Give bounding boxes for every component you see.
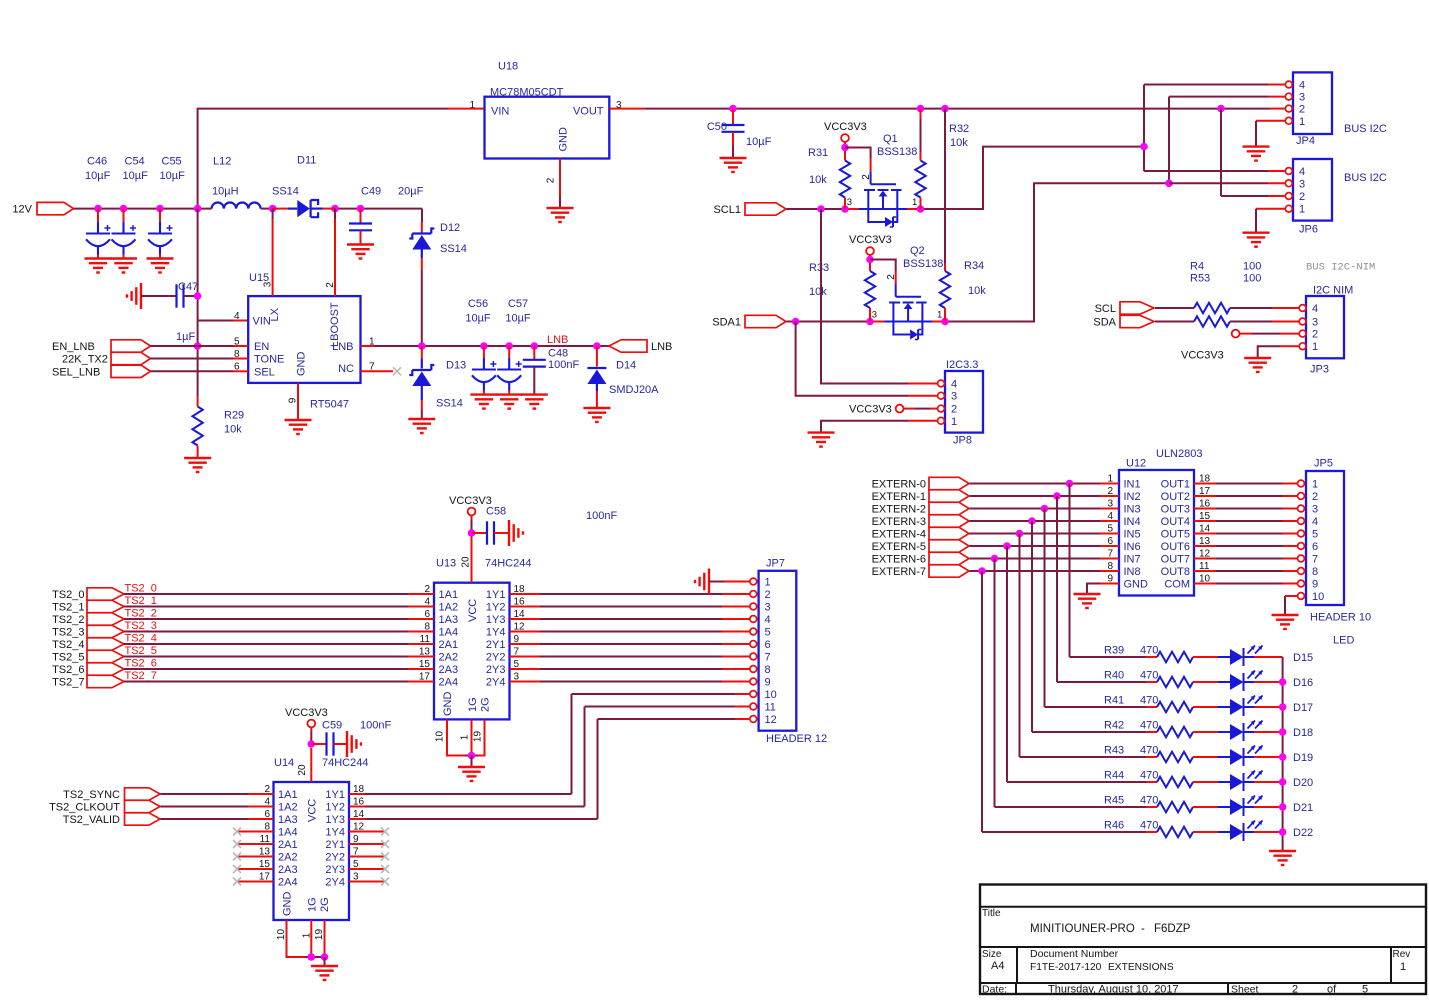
svg-text:7: 7 [353,847,359,858]
svg-text:2: 2 [1107,486,1113,497]
svg-text:12: 12 [514,622,526,633]
wire SDA1 drain stub [930,321,945,323]
wire R32 top dark [920,119,922,152]
resistor R39 470 [1157,652,1193,662]
port EN_LNB [111,340,151,352]
port LNB [609,340,647,352]
svg-text:4: 4 [1299,166,1305,178]
wire D18 cathode lead [1244,731,1255,733]
wire C47 left [141,295,177,297]
svg-text:EXTERN-0: EXTERN-0 [872,479,926,491]
wire OUT6 stub [1194,545,1216,547]
svg-text:12V: 12V [12,204,32,216]
wire VCC3V3 to JP8.2 dark [915,408,930,410]
connector JP4 box [1293,72,1332,134]
wire JP5 pin1 stub [1283,483,1297,485]
wire D16 anode lead [1218,681,1230,683]
svg-text:R41: R41 [1104,695,1124,707]
wire D11 cathode stub [323,208,335,210]
svg-text:2: 2 [1312,329,1318,341]
wire OUT3 run [1216,508,1283,510]
port TS2_VALID [125,813,161,825]
svg-text:20µF: 20µF [398,186,424,198]
svg-text:1: 1 [912,197,917,208]
svg-text:VCC3V3: VCC3V3 [849,234,892,246]
wire R34 top dark [944,109,946,263]
no-connect X U14 2Y4 [381,878,389,886]
wire 2Y2 out stub [510,656,541,658]
wire U14 1Y2 run [365,806,585,808]
svg-text:9: 9 [288,397,299,403]
diode D14 SMDJ20A [587,368,606,384]
svg-text:TS2_2: TS2_2 [52,614,84,626]
power VCC3V3 at Q2 gate [866,247,874,255]
pins JP3 [1299,305,1306,350]
wire JP6 pin4 stub [1268,170,1285,172]
svg-text:IN7: IN7 [1124,554,1141,566]
wire JP5 pin8 stub [1283,570,1297,572]
wire Q2 gate red [895,271,897,284]
svg-text:Size: Size [982,949,1002,960]
wire JP3.1 down [1258,346,1280,358]
junction SCL5V at JP4 vertical [1140,143,1148,151]
wire VCC3V3 to JP3.2 dark [1252,333,1280,335]
svg-text:14: 14 [514,609,526,620]
svg-text:BUS I2C: BUS I2C [1344,123,1387,135]
wire JP7 pin1 to ground [724,581,750,583]
driver U12 ULN2803 box [1119,470,1194,596]
wire R4 to JP3.4 [1230,307,1272,309]
svg-text:2: 2 [264,784,270,795]
svg-text:9: 9 [353,834,359,845]
svg-text:1G: 1G [467,697,479,712]
svg-text:6: 6 [1312,541,1318,553]
svg-text:D18: D18 [1293,727,1313,739]
connector JP8 box [945,371,983,433]
svg-text:R34: R34 [964,260,984,272]
wire 1Y1 out stub [510,593,541,595]
wire OUT4 stub [1194,520,1216,522]
wire D15 anode lead [1218,656,1230,658]
wire R46 to LED [1193,831,1218,833]
wire JP6 pin2 run [1221,195,1268,197]
wire 2Y1 out stub [510,643,541,645]
wire JP8.3 stub [908,395,937,397]
wire VIN pin4 stub [233,320,248,322]
svg-text:470.: 470. [1140,745,1161,757]
wire VCC3V3 to JP3.2 red [1240,333,1252,335]
svg-text:HEADER 10: HEADER 10 [1310,612,1371,624]
svg-text:3: 3 [514,672,520,683]
svg-text:U12: U12 [1126,458,1146,470]
svg-text:1Y3: 1Y3 [486,614,506,626]
wire SCL to R4 [1155,307,1194,309]
wire R46 left stub [1146,831,1157,833]
wire D13 lead [421,359,423,369]
wire D14 top stub [596,346,598,367]
wire R33 top stub [869,264,871,272]
svg-text:1: 1 [765,577,771,589]
wire D15 cathode lead [1244,656,1255,658]
svg-text:10k: 10k [950,137,968,149]
svg-text:14: 14 [353,809,365,820]
svg-text:EXTERN-6: EXTERN-6 [872,554,926,566]
ground at JP7 pin1 [695,569,709,595]
wire R45 to LED [1193,806,1218,808]
wire SEL stub [233,370,248,372]
svg-text:1: 1 [1107,474,1113,485]
wire R41 to LED [1193,706,1218,708]
wire U14 2Y3 nc stub [349,868,384,870]
wire EXTERN-3 stub [1100,520,1119,522]
svg-text:10k: 10k [809,174,827,186]
svg-text:SDA1: SDA1 [712,317,741,329]
svg-text:7: 7 [514,647,520,658]
svg-text:9: 9 [1312,579,1318,591]
wire TONE stub [233,358,248,360]
wire 12V bus riser to U18 VIN [198,109,448,209]
wire U14 1Y3 stub [349,818,365,820]
svg-text:17: 17 [259,872,271,883]
svg-text:20: 20 [297,764,308,776]
svg-text:SS14: SS14 [436,398,463,410]
wire 12V bus right of D11 [335,208,422,210]
svg-text:GND: GND [296,352,308,377]
svg-text:BSS138: BSS138 [877,146,917,158]
svg-text:2A3: 2A3 [439,664,459,676]
svg-text:C50: C50 [707,121,727,133]
port SDA (NIM) [1120,315,1154,327]
svg-text:EXTERN-1: EXTERN-1 [872,491,926,503]
svg-text:TS2_3: TS2_3 [125,620,157,632]
capacitor C46 [86,222,111,255]
wire SCL1 to JP8.4 [821,209,908,384]
svg-text:IN6: IN6 [1124,541,1141,553]
svg-text:10µF: 10µF [746,136,772,148]
svg-text:17: 17 [1199,486,1211,497]
buffer U13 74HC244 box [434,583,510,720]
wire JP5 pin3 stub [1283,508,1297,510]
wire D22 cathode lead [1244,831,1255,833]
svg-text:8: 8 [1312,566,1318,578]
wire OUT7 stub [1194,558,1216,560]
wire OUT1 stub [1194,483,1216,485]
wire EXTERN-4 stub [1100,533,1119,535]
wire OUT2 run [1216,495,1283,497]
wire JP5 pin7 stub [1283,558,1297,560]
wire C49 stub top [360,209,362,224]
no-connect X U14 2A4 [233,878,241,886]
wire R31 top stub [844,152,846,161]
port TS2_3 [87,625,124,637]
svg-text:470.: 470. [1140,770,1161,782]
capacitor C54 [112,222,137,255]
wire R33 bottom stub [869,308,871,322]
wire U14 2A1 nc stub [238,843,274,845]
resistor R44 470 [1157,777,1193,787]
svg-text:1: 1 [937,310,942,321]
wire EXTERN-4 run [970,533,1101,535]
wire C48 top stub [533,346,535,360]
port 22K_TX2 [111,352,151,364]
wire JP5 pin2 stub [1283,495,1297,497]
wire JP7 pin5 stub [722,631,750,633]
wire VCC3V3 to R31 [844,142,846,151]
port EXTERN-3 [929,515,969,527]
wire C55 top stub [159,209,161,222]
wire LNB bus [374,345,609,347]
wire JP5 pin10 down [1284,596,1286,615]
svg-text:IN5: IN5 [1124,529,1141,541]
svg-text:VOUT: VOUT [573,106,604,118]
svg-text:GND: GND [1124,579,1149,591]
wire OUT2 stub [1194,495,1216,497]
svg-text:C57: C57 [508,298,528,310]
wire R53 stub [1272,321,1299,323]
wire R42 left stub [1146,731,1157,733]
wire U14 VCC red [310,748,312,782]
wire TS2_SYNC stub [248,793,274,795]
wire R42 to LED [1193,731,1218,733]
wire JP8.4 stub [908,383,937,385]
wire EXTERN-7 stub [1100,570,1119,572]
svg-text:of: of [1327,984,1337,996]
svg-text:10µF: 10µF [85,170,111,182]
connector JP5 box [1306,471,1344,605]
junction SDA1 row [792,318,874,326]
wire R53 to JP3.3 [1230,321,1272,323]
svg-text:U13: U13 [436,558,456,570]
svg-text:1A3: 1A3 [278,814,298,826]
svg-text:Date:: Date: [982,984,1007,996]
port TS2_1 [87,600,124,612]
wire LBOOST riser [334,219,336,296]
wire D13 bottom lead [421,386,423,400]
svg-text:A4: A4 [991,960,1004,972]
junction 5V bus [729,105,1225,113]
svg-text:9: 9 [765,677,771,689]
op-amp U15 RT5047 box [248,296,360,383]
ground under C57 [496,395,523,409]
wire JP7 pin7 stub [722,656,750,658]
svg-text:1A4: 1A4 [278,827,298,839]
svg-text:Sheet: Sheet [1231,984,1259,996]
wire SCL 5V side [921,147,1145,209]
svg-text:IN8: IN8 [1124,566,1141,578]
svg-text:2A3: 2A3 [278,864,298,876]
svg-text:4: 4 [765,614,771,626]
svg-text:LED: LED [1333,635,1354,647]
wire JP6 pin1 down [1255,209,1257,233]
wire D19 cathode lead [1244,756,1255,758]
wire R39 left stub [1146,656,1157,658]
ground under U13 [458,767,485,781]
wire OUT5 stub [1194,533,1216,535]
svg-text:4: 4 [951,379,957,391]
svg-text:3: 3 [1312,504,1318,516]
svg-text:2: 2 [765,589,771,601]
ground under JP6 pin1 [1243,233,1270,247]
svg-text:VIN: VIN [491,106,509,118]
wire U13 gnd link [465,755,478,757]
regulator U18 MC78M05CDT box [485,97,610,159]
wire C57 bottom stub [508,391,510,395]
svg-text:100: 100 [1243,273,1261,285]
svg-text:5: 5 [514,659,520,670]
svg-text:EXTENSIONS: EXTENSIONS [1108,962,1174,973]
wire OUT8 stub [1194,570,1216,572]
wire 1Y2 to JP7 [540,606,722,608]
wire D21 to common [1254,806,1283,808]
svg-text:2: 2 [424,584,430,595]
svg-text:TS2_VALID: TS2_VALID [63,814,120,826]
wire D21 anode lead [1218,806,1230,808]
svg-text:TS2_7: TS2_7 [52,677,84,689]
svg-text:1G: 1G [307,897,319,912]
port EXTERN-1 [929,490,969,502]
wire 22K_TX2 to TONE [151,358,234,360]
wire 1Y2 out stub [510,606,541,608]
svg-text:3: 3 [847,197,852,208]
svg-text:R53: R53 [1190,273,1210,285]
wire D17 cathode lead [1244,706,1255,708]
svg-text:1A2: 1A2 [439,602,459,614]
ground under JP3 pin1 [1244,358,1271,372]
wire D19 anode lead [1218,756,1230,758]
wire VCC3V3 circle red stub (U14) [310,727,312,731]
svg-text:VCC: VCC [307,799,319,822]
svg-text:13: 13 [419,647,431,658]
resistor R40 470 [1157,677,1193,687]
wire 2Y4 to JP7 [540,681,722,683]
svg-text:11: 11 [260,834,271,845]
wire U14 gnd link [305,956,325,958]
resistor R33 [865,271,875,308]
svg-text:OUT1: OUT1 [1161,479,1190,491]
power VCC3V3 at U13 [468,508,476,516]
svg-text:D21: D21 [1293,802,1313,814]
wire JP7 pin10 vertical [571,694,573,794]
diode D13 SS14 [409,365,434,386]
svg-text:C46: C46 [87,156,107,168]
svg-text:10k: 10k [224,424,242,436]
svg-text:2: 2 [1299,104,1305,116]
LED D16 [1230,671,1263,692]
svg-text:8: 8 [424,622,430,633]
svg-text:2Y2: 2Y2 [325,852,345,864]
svg-text:4: 4 [234,311,240,322]
svg-text:R4: R4 [1190,261,1204,273]
port EXTERN-7 [929,565,969,577]
junction U14 ground [308,953,329,961]
wire JP7 pin12 run [598,718,736,720]
inductor L12 [212,202,261,208]
wire vertical JP4.4-JP6.4 [1143,85,1145,172]
svg-text:D16: D16 [1293,677,1313,689]
wire Q1 gate lead [870,172,872,184]
wire JP6 pin4 run [1144,170,1268,172]
diode D12 SS14 [409,229,434,250]
wire R39 feed [1070,656,1147,658]
wire C49 stub bottom [360,231,362,245]
svg-text:1A1: 1A1 [278,789,298,801]
port SDA1 [745,315,786,327]
wire R42 feed [1032,731,1146,733]
svg-text:5: 5 [1107,524,1113,535]
wire EXTERN verticals to LEDs [982,484,1070,833]
wire SDA1 to JP8.3 [796,322,908,396]
ground under U12 [1074,594,1101,608]
wire LBOOST riser top [334,209,336,219]
svg-text:2Y1: 2Y1 [325,839,345,851]
wire JP7 pin4 stub [722,618,750,620]
junction R33/gate [866,256,874,264]
wire U14 1Y2 stub [349,806,365,808]
wire D19 to common [1254,756,1283,758]
svg-text:11: 11 [1199,561,1210,572]
svg-text:2Y3: 2Y3 [325,864,345,876]
svg-text:2G: 2G [319,897,331,912]
svg-text:2: 2 [1299,191,1305,203]
wire vertical 5V to JP6.2 [1220,109,1222,196]
ground under C56 [470,395,497,409]
svg-text:R40: R40 [1104,670,1124,682]
ground under LED column [1269,851,1296,865]
wire 2Y4 out stub [510,681,541,683]
ground under U18 [547,208,574,222]
port TS2_5 [87,650,124,662]
svg-text:EXTERN-3: EXTERN-3 [872,516,926,528]
wire D13 bottom stub dark [421,410,423,419]
svg-text:1: 1 [302,932,313,938]
junction SCL1 row [817,205,849,213]
wire LED common cathode [1282,657,1284,851]
wire 12V riser to VIN/EN/R29 [197,209,199,397]
svg-text:5: 5 [353,859,359,870]
svg-text:OUT3: OUT3 [1161,504,1190,516]
svg-text:4: 4 [264,797,270,808]
svg-text:10µF: 10µF [505,313,531,325]
wire U14 GND down [287,920,306,957]
wire Q2 gate lead [895,284,897,297]
svg-text:1A1: 1A1 [439,589,459,601]
wire U14 1Y1 run [365,793,572,795]
svg-text:4: 4 [1299,80,1305,92]
wire OUT3 stub [1194,508,1216,510]
ground under C46 [85,259,112,273]
svg-text:10k: 10k [968,285,986,297]
capacitor C58 [487,521,494,544]
wire R44 to LED [1193,781,1218,783]
svg-text:TS2_0: TS2_0 [125,583,157,595]
wire C50 bottom stub [732,132,734,147]
svg-text:9: 9 [1107,574,1113,585]
title block frame [980,885,1426,995]
svg-text:18: 18 [1199,474,1211,485]
svg-text:U14: U14 [274,757,294,769]
wire OUT1 run [1216,483,1283,485]
svg-text:TS2_5: TS2_5 [125,645,157,657]
wire U14 1A4 nc stub [238,831,274,833]
wire R40 left stub [1146,681,1157,683]
svg-text:C48: C48 [548,348,568,360]
svg-text:18: 18 [514,584,526,595]
svg-text:D20: D20 [1293,777,1313,789]
svg-text:3: 3 [1299,92,1305,104]
ground under JP5 pin10 [1272,615,1299,629]
wire JP7 pin11 stub [735,706,749,708]
wire VCC3V3 circle red stub [471,515,473,519]
